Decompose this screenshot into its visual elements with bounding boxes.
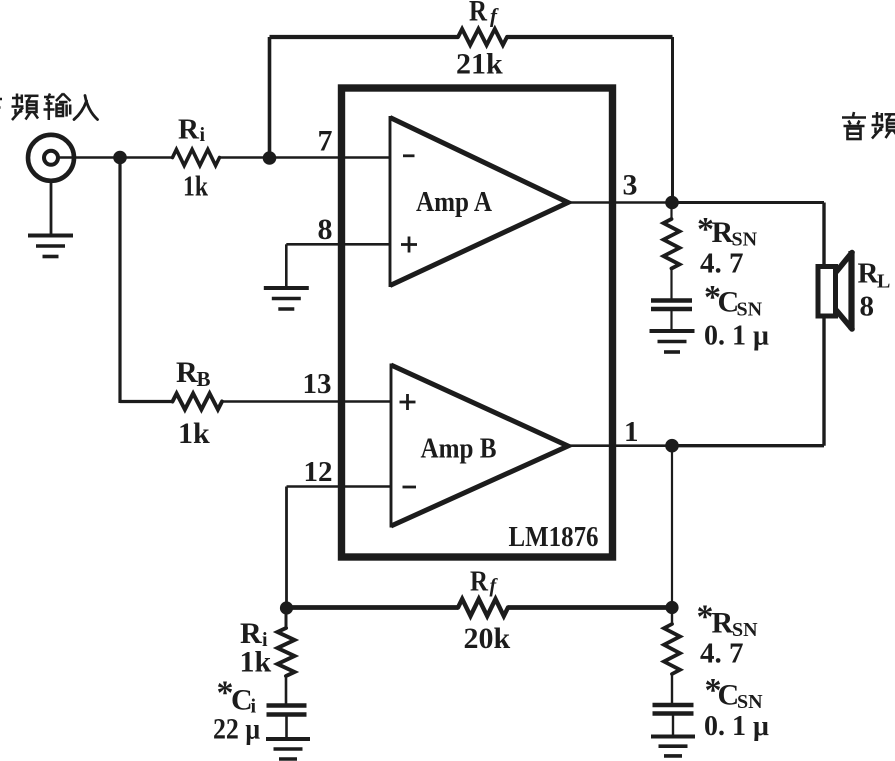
capacitor Ci bbox=[267, 703, 307, 708]
svg-text:1k: 1k bbox=[178, 417, 210, 450]
node D (snubber B junction) bbox=[665, 601, 678, 614]
wire feedback right vertical to pin 3 bbox=[671, 37, 674, 203]
op-amp U1A Amp A triangle bbox=[389, 116, 392, 287]
svg-text:R: R bbox=[712, 216, 734, 249]
wire pin1 node down to node D bbox=[671, 446, 673, 608]
svg-text:20k: 20k bbox=[464, 622, 511, 655]
wire RSN A to CSN A bbox=[670, 269, 672, 301]
wire speaker bottom to pin1 line bbox=[822, 318, 825, 446]
ground (Ci) bbox=[266, 737, 310, 741]
svg-text:SN: SN bbox=[737, 299, 763, 321]
svg-text:R: R bbox=[178, 114, 200, 146]
wire RSN B to CSN B bbox=[671, 674, 673, 705]
ground (snubber A) bbox=[650, 329, 695, 333]
op-amp U1B Amp B triangle bbox=[390, 364, 393, 528]
svg-text:R: R bbox=[469, 0, 487, 28]
svg-text:22 μ: 22 μ bbox=[213, 713, 260, 746]
resistor Rf (top feedback) bbox=[458, 29, 507, 45]
wire Rf bottom left segment bbox=[287, 605, 459, 610]
wire pin 7 (node B to Amp A inverting input) bbox=[270, 156, 391, 159]
svg-text:1: 1 bbox=[624, 416, 639, 448]
plus sign Amp A bbox=[401, 243, 417, 246]
node pin 1 bbox=[665, 439, 679, 453]
plus sign Amp B bbox=[400, 401, 416, 404]
wire node D to RSN B bbox=[671, 608, 673, 625]
input connector J1 bbox=[28, 135, 74, 181]
wire pin 8 (Amp A non-inverting input to ground) bbox=[286, 243, 390, 246]
svg-text:4. 7: 4. 7 bbox=[700, 638, 744, 670]
minus sign Amp A bbox=[403, 154, 415, 157]
wire pin 12 (Amp B inverting input down to node C) bbox=[287, 485, 392, 488]
wire CSN B to ground bbox=[672, 714, 674, 737]
resistor Ri (input, top) bbox=[173, 150, 220, 166]
text audio output (top right) bbox=[842, 112, 895, 139]
speaker RL body bbox=[818, 267, 836, 317]
node pin 3 bbox=[665, 196, 679, 210]
wire connector to input node bbox=[59, 156, 120, 159]
resistor RSN A bbox=[664, 219, 680, 269]
svg-text:R: R bbox=[470, 566, 489, 598]
resistor Rf (bottom feedback 20k) bbox=[458, 599, 508, 616]
ground (snubber B) bbox=[651, 735, 695, 739]
node B (feedback junction) bbox=[263, 151, 277, 165]
wire feedback left vertical bbox=[268, 37, 272, 158]
node A (input junction) bbox=[113, 151, 127, 165]
svg-text:LM1876: LM1876 bbox=[509, 522, 599, 553]
svg-text:C: C bbox=[718, 679, 740, 712]
speaker RL cone bbox=[837, 253, 853, 272]
svg-text:4. 7: 4. 7 bbox=[700, 248, 744, 280]
svg-text:12: 12 bbox=[304, 456, 333, 488]
resistor RB bbox=[173, 394, 223, 410]
node C (Ri/Rf junction bottom left) bbox=[280, 601, 293, 614]
ground (pin 8) bbox=[264, 286, 309, 290]
wire node C to Ri bottom bbox=[285, 608, 288, 629]
wire Ri bottom to Ci bbox=[285, 676, 288, 705]
capacitor CSN B bbox=[653, 703, 694, 708]
svg-text:0. 1 μ: 0. 1 μ bbox=[704, 711, 769, 742]
wire connector ground stem bbox=[50, 181, 53, 235]
wire Rf bottom right segment bbox=[508, 605, 672, 610]
wire pin3 node to speaker top bbox=[672, 201, 824, 204]
wire Ri to node B bbox=[220, 156, 270, 159]
wire pin 13 (RB to Amp B non-inverting input) bbox=[222, 400, 391, 403]
svg-text:0. 1 μ: 0. 1 μ bbox=[704, 321, 769, 352]
IC U1 LM1876 box bbox=[342, 88, 613, 557]
resistor RSN B bbox=[664, 624, 680, 674]
ground (input connector) bbox=[28, 234, 73, 238]
svg-text:8: 8 bbox=[318, 213, 333, 246]
svg-text:Amp A: Amp A bbox=[416, 186, 492, 218]
wire node3 to RSN A bbox=[670, 203, 672, 221]
wire CSN A to ground bbox=[670, 309, 672, 330]
wire node A down to RB bbox=[118, 158, 121, 404]
minus sign Amp B bbox=[403, 486, 417, 489]
svg-text:7: 7 bbox=[318, 125, 333, 158]
svg-text:21k: 21k bbox=[456, 48, 503, 81]
svg-text:3: 3 bbox=[623, 169, 638, 202]
svg-text:SN: SN bbox=[737, 691, 763, 713]
svg-text:L: L bbox=[877, 271, 890, 293]
resistor Ri (bottom) bbox=[278, 628, 295, 676]
svg-text:R: R bbox=[712, 607, 734, 640]
svg-text:R: R bbox=[176, 356, 198, 389]
svg-text:B: B bbox=[197, 367, 211, 391]
svg-text:13: 13 bbox=[303, 368, 332, 400]
svg-text:1k: 1k bbox=[183, 172, 208, 203]
svg-text:8: 8 bbox=[860, 291, 875, 323]
capacitor CSN A bbox=[651, 298, 692, 303]
svg-text:i: i bbox=[200, 124, 206, 146]
wire node A to Ri bbox=[120, 156, 173, 159]
wire Amp A output pin 3 bbox=[568, 201, 672, 204]
wire Ci to ground bbox=[285, 715, 288, 738]
wire Amp B output pin 1 bbox=[568, 444, 672, 447]
text audio input (top left) bbox=[0, 94, 98, 121]
wire feedback top horizontal right bbox=[507, 35, 673, 39]
wire feedback top horizontal left bbox=[270, 35, 459, 39]
svg-text:Amp B: Amp B bbox=[421, 433, 497, 465]
svg-text:1k: 1k bbox=[240, 646, 272, 679]
